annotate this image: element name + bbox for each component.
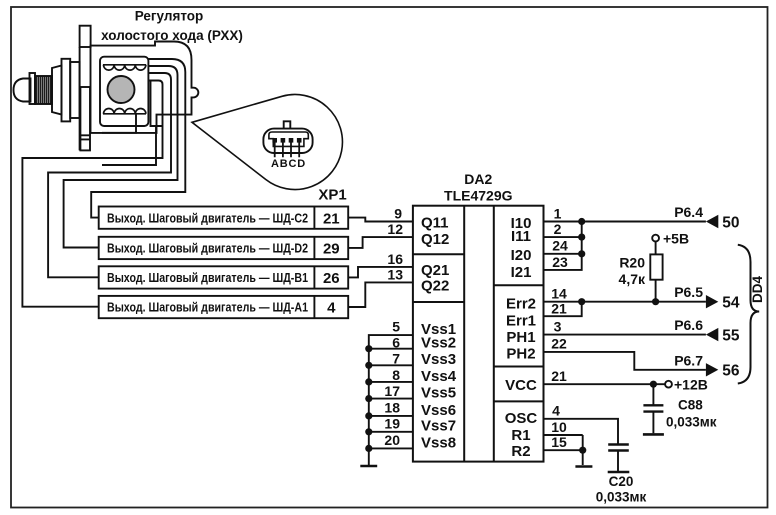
svg-text:18: 18 xyxy=(384,399,400,415)
wire: IC pin 21 VCC to +12B xyxy=(544,383,666,385)
svg-text:P6.5: P6.5 xyxy=(674,284,703,300)
connector pins A-D with tails xyxy=(272,138,301,157)
RXX stator block xyxy=(100,57,148,126)
RXX motor body outline xyxy=(91,42,199,133)
svg-text:OSC: OSC xyxy=(505,410,538,427)
XP1 connector row 1: ШД-С2 pin 21 xyxy=(99,207,349,229)
svg-text:5: 5 xyxy=(392,319,400,335)
svg-text:0,033мк: 0,033мк xyxy=(596,490,647,505)
RXX lower block xyxy=(80,87,90,150)
RXX bracket spine xyxy=(79,47,81,150)
svg-text:29: 29 xyxy=(323,241,340,258)
svg-text:PH1: PH1 xyxy=(506,329,535,346)
capacitor C88 xyxy=(643,384,717,434)
junction dot pin 15 xyxy=(579,447,586,454)
wire: IC pins 10,15 to ground xyxy=(544,435,583,465)
svg-text:VCC: VCC xyxy=(505,377,537,394)
svg-text:Q21: Q21 xyxy=(421,262,449,279)
svg-text:Vss5: Vss5 xyxy=(421,385,456,402)
svg-text:Q12: Q12 xyxy=(421,231,449,248)
svg-text:15: 15 xyxy=(551,434,567,450)
svg-text:50: 50 xyxy=(722,214,739,231)
junction dots pins 1,2,24 xyxy=(578,218,585,258)
svg-text:+12В: +12В xyxy=(674,377,708,393)
wire: IC pin 21 Err1 to bus xyxy=(544,302,582,317)
svg-text:C88: C88 xyxy=(678,398,703,413)
svg-text:16: 16 xyxy=(387,251,403,267)
svg-text:1: 1 xyxy=(554,205,562,221)
wire: right bus pins 1,2,24,23 xyxy=(544,222,582,270)
junction dots P6.5 line xyxy=(578,298,585,305)
svg-text:54: 54 xyxy=(722,295,740,312)
XP1 connector row 3: ШД-В1 pin 26 xyxy=(99,266,349,288)
RXX stator top winding xyxy=(103,65,146,70)
svg-text:4,7к: 4,7к xyxy=(619,271,646,287)
svg-text:Выход. Шаговый двигатель — ШД-: Выход. Шаговый двигатель — ШД-А1 xyxy=(107,300,308,315)
svg-text:9: 9 xyxy=(394,206,402,222)
svg-text:Выход. Шаговый двигатель — ШД-: Выход. Шаговый двигатель — ШД-D2 xyxy=(107,241,308,256)
svg-text:I20: I20 xyxy=(511,247,532,264)
svg-text:P6.7: P6.7 xyxy=(674,352,703,368)
svg-text:R20: R20 xyxy=(619,254,645,270)
power +5B terminal xyxy=(652,231,689,247)
svg-text:14: 14 xyxy=(551,286,567,302)
junction dots on Vss bus xyxy=(365,345,372,452)
RXX valve pintle (bullet nose) xyxy=(14,79,31,102)
svg-text:DA2: DA2 xyxy=(464,171,492,187)
junction dot VCC xyxy=(650,381,657,388)
ground (R1 R2) xyxy=(575,465,592,468)
svg-text:R2: R2 xyxy=(511,443,530,460)
power +12B terminal xyxy=(665,377,708,393)
svg-text:24: 24 xyxy=(552,238,568,254)
svg-text:56: 56 xyxy=(722,363,740,380)
IC left pin names xyxy=(421,215,457,452)
svg-text:Q22: Q22 xyxy=(421,278,449,295)
svg-text:Vss4: Vss4 xyxy=(421,368,457,385)
svg-text:3: 3 xyxy=(554,318,562,334)
XP1 connector row 2: ШД-D2 pin 29 xyxy=(99,237,349,259)
DD4 brace xyxy=(738,245,759,384)
RXX valve collar xyxy=(30,73,36,104)
svg-text:Vss6: Vss6 xyxy=(421,402,456,419)
svg-text:21: 21 xyxy=(551,368,567,384)
svg-text:Vss7: Vss7 xyxy=(421,418,456,435)
svg-text:P6.4: P6.4 xyxy=(674,204,703,220)
wire: box3 pin26 to IC pin 16 xyxy=(348,267,413,278)
svg-text:22: 22 xyxy=(551,336,567,352)
RXX mounting tab (top) xyxy=(80,26,91,47)
IC DA2 TLE4729G body xyxy=(413,206,544,462)
svg-text:0,033мк: 0,033мк xyxy=(666,415,717,430)
svg-text:Vss3: Vss3 xyxy=(421,351,456,368)
svg-text:13: 13 xyxy=(387,266,403,282)
wire: IC pin 3 to P6.6 arrow xyxy=(544,334,706,336)
svg-text:23: 23 xyxy=(552,254,568,270)
XP1 connector row 4: ШД-А1 pin 4 xyxy=(99,296,349,318)
svg-text:19: 19 xyxy=(384,415,400,431)
title label: Регулятор холостого хода (РХХ) xyxy=(101,9,243,43)
svg-text:Err1: Err1 xyxy=(506,313,536,330)
svg-text:12: 12 xyxy=(387,221,403,237)
wire: motor lead to XP1 box 4 (ШД-А1) xyxy=(22,81,162,307)
RXX rotor xyxy=(108,76,135,103)
wire: IC pin 22 to P6.7 arrow xyxy=(544,352,706,370)
callout balloon xyxy=(192,94,342,189)
svg-text:6: 6 xyxy=(392,335,400,351)
capacitor C20 xyxy=(596,445,647,505)
svg-text:C20: C20 xyxy=(609,474,634,489)
resistor R20 xyxy=(619,242,663,302)
wire: motor lead inner loop xyxy=(102,81,163,165)
svg-text:26: 26 xyxy=(323,270,340,287)
svg-text:55: 55 xyxy=(722,327,740,344)
svg-text:7: 7 xyxy=(392,351,400,367)
svg-text:4: 4 xyxy=(552,403,560,419)
svg-text:Vss8: Vss8 xyxy=(421,434,456,451)
Vss pin numbers 5,6,7,8,17,18,19,20 xyxy=(384,319,400,448)
wire: motor lead to XP1 box 1 (ШД-С2) xyxy=(91,59,185,218)
RXX valve frustum ring xyxy=(52,66,62,115)
svg-text:Регулятор: Регулятор xyxy=(135,9,204,24)
ground (Vss) xyxy=(360,465,377,468)
wire: box1 pin21 to IC pin 9 xyxy=(348,218,413,222)
RXX valve disc flange xyxy=(62,59,71,122)
RXX valve threaded shaft xyxy=(35,76,52,104)
svg-text:Выход. Шаговый двигатель — ШД-: Выход. Шаговый двигатель — ШД-В1 xyxy=(107,270,308,285)
svg-text:2: 2 xyxy=(554,221,562,237)
svg-text:20: 20 xyxy=(384,432,400,448)
wire: IC pin 4 OSC to C20 xyxy=(544,419,619,444)
svg-text:+5В: +5В xyxy=(663,231,689,247)
svg-text:21: 21 xyxy=(323,210,340,227)
svg-text:ABCD: ABCD xyxy=(271,158,306,170)
wire: motor lead to XP1 box 3 (ШД-В1) xyxy=(48,73,171,277)
svg-text:XP1: XP1 xyxy=(318,187,346,204)
RXX valve spacer ring xyxy=(70,62,79,118)
IC right pin names xyxy=(505,215,538,460)
svg-text:17: 17 xyxy=(384,383,400,399)
wire: IC pin 14 to P6.5 arrow xyxy=(544,301,706,303)
svg-text:Vss2: Vss2 xyxy=(421,335,456,352)
svg-text:DD4: DD4 xyxy=(750,276,765,303)
svg-text:8: 8 xyxy=(392,367,400,383)
svg-text:TLE4729G: TLE4729G xyxy=(444,188,513,204)
svg-text:PH2: PH2 xyxy=(506,346,535,363)
svg-text:21: 21 xyxy=(551,300,567,316)
wire: Vss bus to ground xyxy=(369,335,413,465)
svg-text:I11: I11 xyxy=(511,228,531,245)
wire: box2 pin29 to IC pin 12 xyxy=(348,237,413,248)
pin numbers 1,2,24,23 xyxy=(552,205,568,269)
RXX stator bottom winding xyxy=(103,109,146,114)
svg-text:Err2: Err2 xyxy=(506,296,536,313)
wire: IC pin 1 to P6.4 arrow xyxy=(544,221,706,223)
wire: motor lead to XP1 box 2 (ШД-D2) xyxy=(64,66,178,248)
svg-text:Выход. Шаговый двигатель — ШД-: Выход. Шаговый двигатель — ШД-С2 xyxy=(107,210,308,225)
svg-text:Q11: Q11 xyxy=(421,215,449,232)
connector face in balloon xyxy=(263,121,312,153)
wire: box4 pin4 to IC pin 13 xyxy=(348,282,413,307)
svg-text:4: 4 xyxy=(327,300,336,317)
svg-text:10: 10 xyxy=(551,419,567,435)
svg-text:I21: I21 xyxy=(511,264,532,281)
svg-text:R1: R1 xyxy=(511,427,530,444)
svg-text:P6.6: P6.6 xyxy=(674,317,703,333)
